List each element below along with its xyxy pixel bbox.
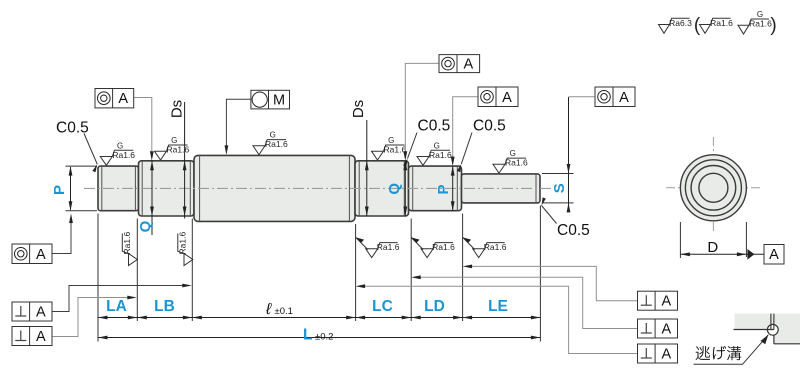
extension line bbox=[539, 206, 541, 342]
datum frame perpendicularity A (left 1) bbox=[12, 302, 52, 321]
dimension row L bbox=[98, 337, 540, 339]
svg-text:A: A bbox=[619, 90, 629, 106]
svg-text:LA: LA bbox=[106, 298, 127, 315]
leader from circularity M frame bbox=[226, 99, 251, 151]
relief groove vertical line below bbox=[773, 335, 775, 344]
surface finish Ra1.6 rotated (at LB face) bbox=[122, 231, 137, 265]
leader from perpendicularity frame R3 (to body right face) bbox=[359, 286, 638, 353]
chamfer edge line bbox=[141, 161, 143, 216]
dimension Ds (section 4) line bbox=[366, 120, 368, 216]
svg-text:A: A bbox=[661, 294, 671, 310]
svg-text:Q: Q bbox=[386, 183, 403, 195]
end view centerline vertical bbox=[712, 137, 714, 231]
relief groove detail fill bbox=[735, 314, 800, 344]
surface finish G/Ra1.6 bbox=[100, 141, 135, 165]
svg-text:P: P bbox=[435, 184, 452, 194]
surface finish G/Ra1.6 bbox=[417, 141, 452, 165]
svg-text:LC: LC bbox=[372, 298, 393, 315]
svg-text:C0.5: C0.5 bbox=[557, 222, 590, 239]
section 3 main body bbox=[194, 155, 355, 221]
chamfer label C0.5 bbox=[542, 206, 590, 240]
chamfer label C0.5 bbox=[408, 118, 451, 159]
svg-text:Ds: Ds bbox=[169, 100, 186, 118]
chamfer edge line bbox=[535, 174, 537, 203]
leader underline to groove bbox=[694, 335, 769, 365]
chamfer edge line bbox=[403, 161, 405, 216]
section 5 (P dia) bbox=[409, 166, 462, 211]
svg-text:Ra1.6: Ra1.6 bbox=[749, 19, 772, 29]
extension line S top bbox=[542, 173, 574, 175]
svg-text:Q: Q bbox=[137, 220, 154, 232]
chamfer label C0.5 bbox=[461, 118, 505, 165]
surface finish G/Ra1.6 bbox=[372, 136, 407, 160]
svg-text:C0.5: C0.5 bbox=[418, 118, 451, 135]
svg-text:A: A bbox=[36, 247, 46, 263]
extension line bbox=[97, 214, 99, 342]
chamfer edge line bbox=[358, 161, 360, 216]
relief groove bottom edge line bbox=[774, 343, 800, 345]
datum frame perpendicularity A (right 2) bbox=[638, 319, 678, 338]
dimension S line bbox=[568, 97, 570, 208]
datum frame circularity M (top center) bbox=[251, 90, 290, 109]
datum frame concentricity A (bottom left) bbox=[12, 244, 52, 264]
dimension row LA LB l LC LD LE bbox=[98, 317, 540, 319]
section 2 (Q/Ds dia) bbox=[139, 161, 195, 216]
chamfer edge line bbox=[189, 161, 191, 216]
svg-text:Ra6.3: Ra6.3 bbox=[669, 18, 692, 28]
end view circle r22.3 bbox=[691, 166, 736, 211]
svg-text:LE: LE bbox=[488, 298, 508, 315]
svg-text:D: D bbox=[707, 239, 718, 256]
svg-text:C0.5: C0.5 bbox=[473, 118, 506, 135]
leader from perpendicularity frame L2 bbox=[52, 298, 133, 337]
centerline of shaft bbox=[84, 187, 553, 189]
extension line bbox=[462, 214, 464, 322]
end view circle r14.5 bbox=[699, 173, 728, 202]
relief groove wall lines bbox=[770, 314, 772, 330]
dimension Q (section 4) line bbox=[404, 161, 406, 216]
dimension P (section 5) line bbox=[452, 166, 454, 211]
end view circle r28 bbox=[685, 160, 741, 216]
datum frame concentricity A (top left) bbox=[95, 89, 134, 108]
chamfer edge line bbox=[101, 166, 103, 211]
dimension Q (section 2) line bbox=[151, 161, 153, 235]
chamfer edge line bbox=[199, 155, 201, 221]
extension line D right bbox=[745, 222, 747, 257]
section 6 (S dia) bbox=[462, 174, 541, 203]
datum frame perpendicularity A (right 1) bbox=[638, 291, 678, 310]
chamfer edge line bbox=[456, 166, 458, 211]
datum frame concentricity A (above section 4) bbox=[439, 55, 480, 73]
extension line P top-left bbox=[66, 165, 98, 167]
relief groove circle bbox=[767, 324, 778, 335]
label 逃げ溝 (relief groove) bbox=[696, 346, 742, 360]
leader from concentricity frame 3 (to S) bbox=[569, 96, 596, 98]
svg-text:Ra1.6: Ra1.6 bbox=[710, 18, 733, 28]
extension line D left bbox=[679, 222, 681, 258]
svg-text:LD: LD bbox=[424, 298, 445, 315]
svg-text:A: A bbox=[661, 322, 671, 338]
surface finish Ra1.6 with leader bbox=[411, 237, 455, 257]
extension line bbox=[410, 219, 412, 322]
svg-text:A: A bbox=[36, 305, 46, 321]
end view centerline horizontal bbox=[666, 187, 761, 189]
surface finish G/Ra1.6 bbox=[253, 131, 288, 155]
chamfer edge line bbox=[134, 166, 136, 211]
section 4 (Q/Ds dia) bbox=[355, 161, 409, 216]
svg-text:Ds: Ds bbox=[350, 100, 367, 118]
surface finish Ra1.6 with leader bbox=[463, 237, 507, 257]
end view circle r33 bbox=[680, 155, 746, 221]
chamfer edge line bbox=[412, 166, 414, 211]
datum frame perpendicularity A (left 2) bbox=[12, 327, 52, 346]
surface finish G/Ra1.6 bbox=[155, 136, 190, 160]
leader from perpendicularity frame R2 (to section 4 right face) bbox=[415, 277, 638, 328]
svg-text:±0.1: ±0.1 bbox=[275, 306, 293, 317]
dimension D line bbox=[680, 253, 764, 255]
svg-text:A: A bbox=[661, 347, 671, 363]
extension line bbox=[191, 219, 193, 322]
svg-text:S: S bbox=[551, 183, 568, 193]
svg-text:A: A bbox=[118, 91, 128, 107]
leader from concentricity frame (top left) bbox=[134, 98, 152, 158]
legend surface finish Ra1.6 bbox=[700, 18, 734, 34]
svg-text:A: A bbox=[36, 329, 46, 345]
surface finish G/Ra1.6 bbox=[493, 149, 528, 173]
extension line bbox=[136, 219, 138, 322]
section 1 (P dia) bbox=[98, 166, 139, 211]
extension line bbox=[355, 224, 357, 321]
datum frame concentricity A (above S) bbox=[595, 87, 635, 107]
leader from concentricity frame 2 (to P section 5) bbox=[453, 97, 478, 163]
dimension P (left) line bbox=[70, 167, 72, 210]
svg-text:A: A bbox=[463, 57, 473, 73]
leader from concentricity frame (bottom left, to P dim) bbox=[52, 217, 71, 254]
relief groove shoulder horizontal line bbox=[734, 329, 774, 331]
svg-text:A: A bbox=[769, 247, 779, 263]
svg-text:L: L bbox=[303, 327, 312, 344]
datum solid triangle A bbox=[747, 249, 754, 260]
svg-text:A: A bbox=[502, 90, 512, 106]
svg-text:M: M bbox=[273, 93, 285, 109]
surface finish Ra1.6 with leader bbox=[356, 237, 400, 257]
extension line P bottom-left bbox=[66, 210, 98, 212]
leader from concentricity frame 1 (top, to Q section 4) bbox=[405, 63, 439, 157]
chamfer label C0.5 bbox=[56, 120, 97, 165]
leader from perpendicularity frame L1 bbox=[52, 286, 188, 312]
svg-text:ℓ: ℓ bbox=[265, 301, 272, 318]
datum frame perpendicularity A (right 3) bbox=[638, 344, 678, 363]
chamfer edge line bbox=[348, 155, 350, 221]
leader from perpendicularity frame R1 (to section 5 right face) bbox=[466, 266, 638, 300]
dimension Ds (section 2) line bbox=[184, 102, 186, 219]
legend surface finish G Ra1.6 bbox=[738, 10, 772, 34]
svg-text:P: P bbox=[51, 185, 68, 195]
svg-text:±0.2: ±0.2 bbox=[315, 332, 333, 343]
surface finish Ra1.6 rotated (at body face) bbox=[177, 231, 192, 265]
legend surface finish Ra6.3 bbox=[659, 18, 693, 34]
extension line S bottom bbox=[542, 202, 574, 204]
datum frame concentricity A (above section 5) bbox=[478, 87, 518, 107]
svg-text:LB: LB bbox=[154, 298, 175, 315]
datum box A (end view) bbox=[764, 245, 784, 265]
svg-text:): ) bbox=[770, 15, 776, 36]
